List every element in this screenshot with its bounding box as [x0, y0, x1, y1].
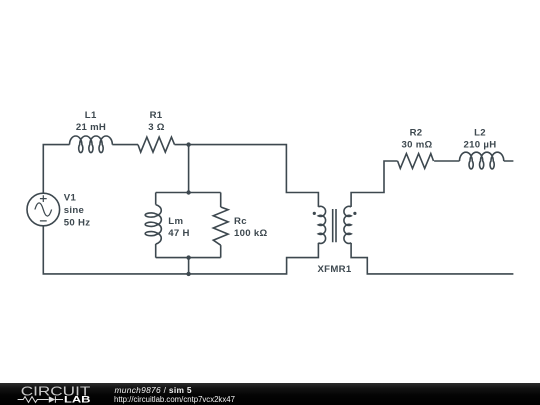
- svg-text:L1: L1: [85, 110, 97, 121]
- svg-text:Rc: Rc: [234, 216, 247, 227]
- svg-text:47 H: 47 H: [168, 228, 189, 239]
- svg-text:50 Hz: 50 Hz: [64, 218, 91, 229]
- svg-text:LAB: LAB: [64, 393, 91, 404]
- svg-text:100 kΩ: 100 kΩ: [234, 228, 268, 239]
- svg-text:R2: R2: [410, 127, 423, 138]
- svg-text:munch9876 / sim 5: munch9876 / sim 5: [115, 385, 192, 395]
- svg-text:3 Ω: 3 Ω: [148, 122, 165, 133]
- svg-text:XFMR1: XFMR1: [317, 264, 351, 275]
- svg-text:sine: sine: [64, 205, 84, 216]
- svg-text:30 mΩ: 30 mΩ: [401, 140, 432, 151]
- svg-text:R1: R1: [150, 110, 163, 121]
- svg-text:http://circuitlab.com/cntp7vcx: http://circuitlab.com/cntp7vcx2kx47: [114, 395, 235, 404]
- svg-text:Lm: Lm: [168, 216, 183, 227]
- svg-text:21 mH: 21 mH: [76, 122, 106, 133]
- svg-text:L2: L2: [474, 127, 486, 138]
- svg-text:V1: V1: [64, 193, 77, 204]
- svg-text:210 µH: 210 µH: [464, 140, 497, 151]
